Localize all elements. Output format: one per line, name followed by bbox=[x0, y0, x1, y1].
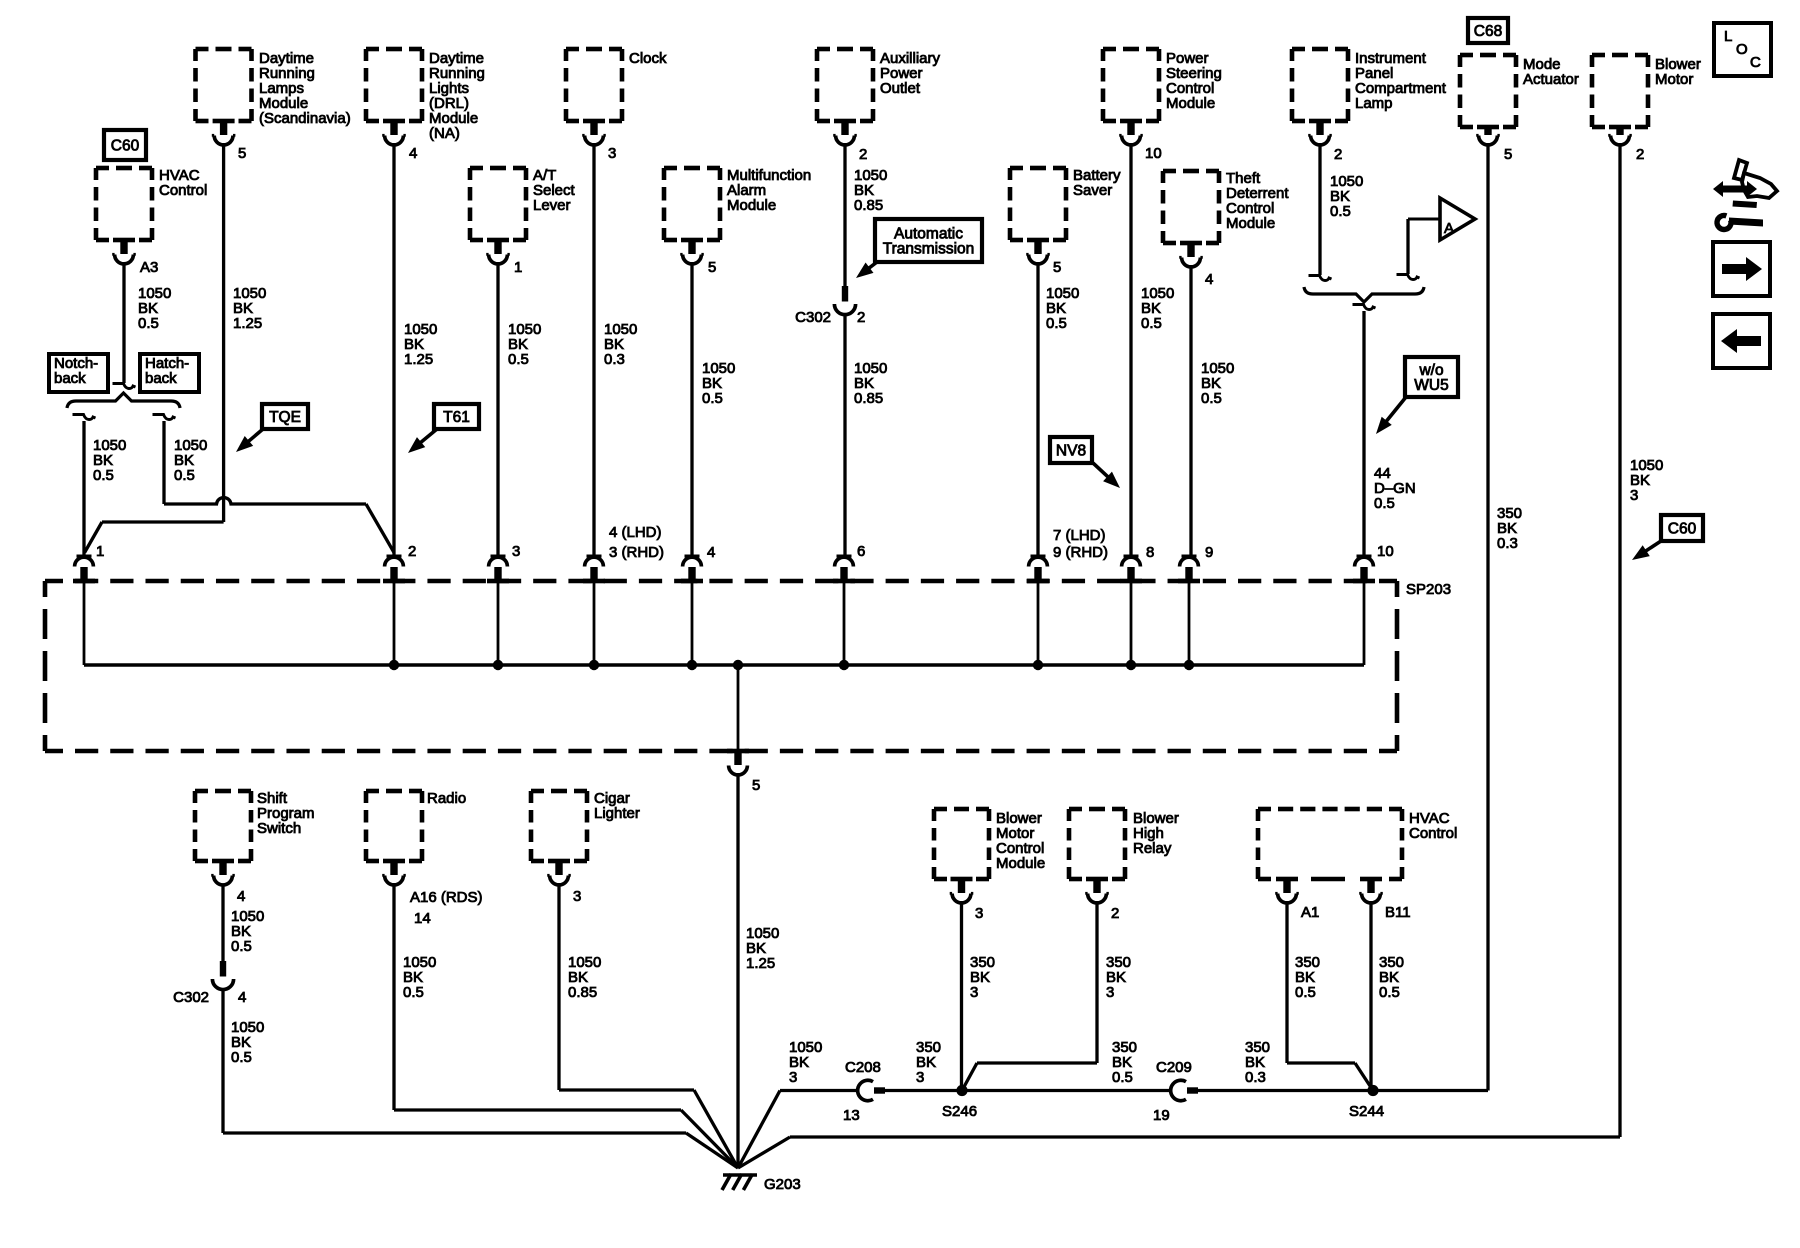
svg-text:13: 13 bbox=[843, 1107, 860, 1124]
svg-text:8: 8 bbox=[1146, 544, 1154, 561]
wire label 1050 BK 0.5 bbox=[403, 954, 436, 1001]
svg-text:L: L bbox=[1724, 28, 1732, 45]
callout C60 above HVAC Control bbox=[104, 130, 146, 160]
C209 label bbox=[1156, 1059, 1192, 1076]
connector box: Blower High Relay bbox=[1069, 809, 1179, 903]
svg-text:5: 5 bbox=[708, 259, 716, 276]
wire inside SP203 from pin 10 to bus bbox=[1363, 583, 1366, 665]
svg-text:2: 2 bbox=[857, 309, 865, 326]
SP203 top pin connector 10 bbox=[1353, 555, 1375, 584]
wire inside SP203 from pin 3 to bus bbox=[497, 583, 500, 665]
wire inside SP203 from pin 6 to bus bbox=[843, 583, 846, 665]
SP203 internal bus wire bbox=[84, 663, 1364, 667]
svg-text:(Scandinavia): (Scandinavia) bbox=[259, 110, 351, 127]
wire: blower motor pin 2 down right edge to ground G203 bbox=[738, 146, 1620, 1168]
svg-text:0.5: 0.5 bbox=[1379, 984, 1400, 1001]
wire label 1050 BK 0.5 bbox=[1141, 285, 1174, 332]
svg-text:0.5: 0.5 bbox=[1330, 203, 1351, 220]
pin 2 label (Blower High Relay) bbox=[1111, 905, 1119, 922]
svg-text:0.5: 0.5 bbox=[508, 351, 529, 368]
svg-text:Module: Module bbox=[727, 197, 776, 214]
wire: Scandinavia lamps wire bend joining SP203 pin 1 bbox=[85, 522, 224, 553]
wire label 1050 BK 3 bbox=[789, 1039, 822, 1086]
wire label 1050 BK 3 bbox=[1630, 457, 1663, 504]
svg-text:0.3: 0.3 bbox=[1245, 1069, 1266, 1086]
C208 label bbox=[845, 1059, 881, 1076]
svg-text:T61: T61 bbox=[443, 409, 470, 426]
C302 label bbox=[173, 989, 209, 1006]
svg-text:3 (RHD): 3 (RHD) bbox=[609, 544, 664, 561]
S244 label bbox=[1349, 1103, 1384, 1120]
wire: hatchback option wire down and right to SP203 pin 2 bbox=[153, 415, 395, 553]
pin 2 label (Auxilliary Power Outlet) bbox=[859, 146, 867, 163]
svg-text:0.85: 0.85 bbox=[854, 197, 883, 214]
wire: SP203 pin 5 down to ground G203 bbox=[736, 775, 739, 1168]
svg-text:back: back bbox=[145, 370, 177, 387]
svg-text:4 (LHD): 4 (LHD) bbox=[609, 524, 662, 541]
svg-text:3: 3 bbox=[970, 984, 978, 1001]
svg-text:3: 3 bbox=[789, 1069, 797, 1086]
inline connector C302 on shift wire bbox=[212, 961, 233, 990]
svg-text:0.85: 0.85 bbox=[854, 390, 883, 407]
wire inside SP203 from bus down to bottom pin 5 bbox=[737, 665, 740, 751]
svg-text:2: 2 bbox=[1636, 146, 1644, 163]
svg-text:TQE: TQE bbox=[269, 409, 301, 426]
connector box: Cigar Lighter bbox=[531, 790, 640, 885]
bus junction bbox=[1184, 660, 1194, 670]
pin 19 label at C209 bbox=[1153, 1107, 1170, 1124]
svg-text:1.25: 1.25 bbox=[404, 351, 433, 368]
wire: theft deterrent module down to SP203 pin 9 bbox=[1189, 267, 1192, 555]
pin 2 label (Instrument Panel Compartment Lamp) bbox=[1334, 146, 1342, 163]
SP203 top pin connector 7 bbox=[1027, 555, 1049, 584]
svg-text:C60: C60 bbox=[111, 138, 140, 155]
wire: Clock pin 3 down to SP203 bbox=[592, 145, 595, 555]
svg-text:B11: B11 bbox=[1385, 904, 1411, 921]
wire: A/T select lever down to SP203 pin 3 bbox=[496, 264, 499, 555]
connector box: HVAC Control (lower) bbox=[1258, 809, 1457, 879]
wire: radio to ground G203 bbox=[394, 885, 738, 1168]
wire: HVAC B11 down to S244 bbox=[1369, 903, 1372, 1091]
svg-text:14: 14 bbox=[414, 910, 431, 927]
inline connector C209 bbox=[1171, 1080, 1198, 1100]
svg-text:Lighter: Lighter bbox=[594, 805, 640, 822]
SP203 top pin connector 4 bbox=[583, 555, 605, 584]
connector box: Shift Program Switch bbox=[195, 790, 315, 885]
wire: multifunction alarm module down to SP203 pin 4 bbox=[690, 264, 693, 555]
callout T61 with arrow bbox=[408, 404, 479, 453]
svg-text:9: 9 bbox=[1205, 544, 1213, 561]
svg-text:1: 1 bbox=[514, 259, 522, 276]
icon: harness direction (double arrow, outline arrow, wrench) bbox=[1713, 160, 1777, 229]
pin 5 label (SP203 output) bbox=[752, 777, 760, 794]
wire: HVAC A1 down to S244 bbox=[1287, 903, 1373, 1091]
connector box: Instrument Panel Compartment Lamp bbox=[1292, 49, 1447, 145]
svg-text:6: 6 bbox=[857, 543, 865, 560]
wire: merged wire down to SP203 pin 10 bbox=[1353, 305, 1376, 555]
wire label 44 D-GN 0.5 bbox=[1374, 465, 1416, 512]
bus junction bbox=[1033, 660, 1043, 670]
svg-text:0.5: 0.5 bbox=[702, 390, 723, 407]
splice pack SP203 dashed box bbox=[45, 581, 1397, 751]
svg-text:5: 5 bbox=[238, 145, 246, 162]
svg-text:C302: C302 bbox=[173, 989, 209, 1006]
svg-text:1: 1 bbox=[96, 543, 104, 560]
wire: shift program switch to C302 bbox=[221, 885, 224, 962]
wire inside SP203 from pin 8 to bus bbox=[1130, 583, 1133, 665]
svg-text:0.5: 0.5 bbox=[93, 467, 114, 484]
pin 3 label (Blower Motor Control Module) bbox=[975, 905, 983, 922]
svg-text:4: 4 bbox=[238, 989, 246, 1006]
options brace joining notchback/hatchback wires bbox=[67, 393, 180, 408]
wire inside SP203 from pin 7 to bus bbox=[1037, 583, 1040, 665]
pin 3 label (Clock) bbox=[608, 145, 616, 162]
SP203 top pin connector 5 bbox=[681, 555, 703, 584]
ground symbol G203 bbox=[722, 1174, 757, 1190]
wire inside SP203 from pin 9 to bus bbox=[1188, 583, 1191, 665]
wire: HVAC control pin A3 down to options brace bbox=[113, 264, 136, 389]
svg-text:Clock: Clock bbox=[629, 50, 667, 67]
wire label 350 BK 3 bbox=[1106, 954, 1131, 1001]
SP203 top pin connector 1 bbox=[73, 555, 95, 584]
SP203 top pin connector 2 bbox=[383, 555, 405, 584]
wire: DRL lamps module pin 5 down to SP203 area bbox=[222, 145, 225, 522]
svg-text:C302: C302 bbox=[795, 309, 831, 326]
pin 5 label (Battery Saver) bbox=[1053, 259, 1061, 276]
pin 13 label at C208 bbox=[843, 1107, 860, 1124]
svg-text:0.5: 0.5 bbox=[138, 315, 159, 332]
wire label 1050 BK 1.25 bbox=[233, 285, 266, 332]
G203 label bbox=[764, 1176, 801, 1193]
svg-text:A1: A1 bbox=[1301, 904, 1319, 921]
pin 4 label (Shift Program Switch) bbox=[237, 888, 245, 905]
svg-text:5: 5 bbox=[1053, 259, 1061, 276]
svg-text:4: 4 bbox=[1205, 271, 1213, 288]
svg-text:5: 5 bbox=[752, 777, 760, 794]
pin 10 label (Power Steering Control Module) bbox=[1145, 145, 1162, 162]
inline connector C208 bbox=[858, 1080, 885, 1100]
wire inside SP203 from pin 2 to bus bbox=[393, 583, 396, 665]
svg-text:2: 2 bbox=[1334, 146, 1342, 163]
svg-text:Control: Control bbox=[159, 182, 207, 199]
svg-text:0.5: 0.5 bbox=[1112, 1069, 1133, 1086]
callout NV8 with arrow bbox=[1050, 437, 1120, 488]
svg-text:0.3: 0.3 bbox=[604, 351, 625, 368]
pin 5 label (Mode Actuator) bbox=[1504, 146, 1512, 163]
svg-text:Lamp: Lamp bbox=[1355, 95, 1393, 112]
SP203 top pin connector 9 bbox=[1178, 555, 1200, 584]
pin 2 label at C302 bbox=[857, 309, 865, 326]
callout C68 above Mode Actuator bbox=[1468, 18, 1508, 43]
wire label 1050 BK 0.5 bbox=[1201, 360, 1234, 407]
wire: DRL(NA) module pin 4 down to SP203 pin 2 bbox=[392, 145, 395, 555]
SP203 top pin connector 6 bbox=[833, 555, 855, 584]
svg-text:Saver: Saver bbox=[1073, 182, 1112, 199]
wire label 1050 BK 1.25 bbox=[404, 321, 437, 368]
bus junction bbox=[1126, 660, 1136, 670]
svg-text:NV8: NV8 bbox=[1056, 443, 1086, 460]
svg-text:1.25: 1.25 bbox=[746, 955, 775, 972]
svg-text:Transmission: Transmission bbox=[883, 241, 975, 258]
HVAC control pin B11 connector bbox=[1359, 877, 1383, 903]
svg-text:4: 4 bbox=[237, 888, 245, 905]
connector box: Multifunction Alarm Module bbox=[664, 167, 811, 264]
svg-text:Module: Module bbox=[1166, 95, 1215, 112]
svg-text:1.25: 1.25 bbox=[233, 315, 262, 332]
wire: mode actuator pin 5 down right side to S244 bbox=[1375, 146, 1488, 1091]
connector box: Mode Actuator bbox=[1460, 55, 1579, 145]
wire label 1050 BK 0.85 bbox=[568, 954, 601, 1001]
bus junction bbox=[839, 660, 849, 670]
svg-text:C60: C60 bbox=[1668, 521, 1697, 538]
HVAC control pin A1 connector bbox=[1275, 877, 1299, 903]
bus junction bbox=[493, 660, 503, 670]
SP203 bottom pin 5 connector bbox=[727, 749, 749, 775]
connector box: Clock bbox=[566, 49, 667, 145]
wire: lamp pin 2 down to merge brace bbox=[1309, 145, 1332, 281]
wire label 350 BK 3 bbox=[970, 954, 995, 1001]
connector box: Theft Deterrent Control Module bbox=[1163, 170, 1289, 267]
wire label 1050 BK 0.5 bbox=[508, 321, 541, 368]
svg-text:G203: G203 bbox=[764, 1176, 801, 1193]
connector box: Blower Motor Control Module bbox=[934, 809, 1045, 903]
connector box: HVAC Control (upper) bbox=[96, 167, 207, 264]
SP203 pin number labels bbox=[96, 524, 1394, 561]
svg-text:7 (LHD): 7 (LHD) bbox=[1053, 527, 1106, 544]
wire inside SP203 from pin 1 to bus bbox=[83, 583, 86, 665]
wire label 1050 BK 0.5 bbox=[231, 1019, 264, 1066]
svg-text:3: 3 bbox=[916, 1069, 924, 1086]
wire label 1050 BK 0.3 bbox=[604, 321, 637, 368]
wire: blower high relay pin 2 to S246 bbox=[962, 903, 1097, 1091]
svg-text:Outlet: Outlet bbox=[880, 80, 921, 97]
pin 4 label (DRL module) bbox=[409, 145, 417, 162]
wire label 1050 BK 0.85 bbox=[854, 167, 887, 214]
svg-text:0.3: 0.3 bbox=[1497, 535, 1518, 552]
svg-text:A3: A3 bbox=[140, 259, 158, 276]
wire label 1050 BK 0.5 bbox=[231, 908, 264, 955]
svg-text:0.5: 0.5 bbox=[231, 1049, 252, 1066]
wire label 350 BK 0.5 (A1) bbox=[1295, 954, 1320, 1001]
svg-text:S246: S246 bbox=[942, 1103, 977, 1120]
svg-text:0.85: 0.85 bbox=[568, 984, 597, 1001]
wire: battery saver down to SP203 pin 7/9 bbox=[1036, 264, 1039, 555]
icon: back arrow box bbox=[1713, 314, 1770, 368]
wire label 1050 BK 0.5 (hatchback) bbox=[174, 437, 207, 484]
svg-text:A: A bbox=[1444, 220, 1454, 237]
connector box: Power Steering Control Module bbox=[1103, 49, 1222, 145]
off-page triangle A bbox=[1440, 198, 1475, 240]
svg-text:3: 3 bbox=[512, 543, 520, 560]
svg-text:3: 3 bbox=[1106, 984, 1114, 1001]
pin 2 label (Blower Motor) bbox=[1636, 146, 1644, 163]
wire: S246 to C209 bbox=[962, 1089, 1170, 1092]
svg-text:S244: S244 bbox=[1349, 1103, 1384, 1120]
legend box L O C bbox=[1714, 23, 1771, 76]
wire label 1050 BK 1.25 bbox=[746, 925, 779, 972]
wire inside SP203 from pin 5 to bus bbox=[691, 583, 694, 665]
svg-text:5: 5 bbox=[1504, 146, 1512, 163]
merge brace (lamp + A) to single wire bbox=[1304, 287, 1424, 302]
wire label 350 BK 3 bbox=[916, 1039, 941, 1086]
bus junction bbox=[589, 660, 599, 670]
connector box: Battery Saver bbox=[1010, 167, 1121, 264]
SP203 top pin connector 8 bbox=[1120, 555, 1142, 584]
svg-text:C209: C209 bbox=[1156, 1059, 1192, 1076]
connector box: Auxilliary Power Outlet bbox=[817, 49, 941, 145]
pin 3 label (Cigar Lighter) bbox=[573, 888, 581, 905]
svg-text:0.5: 0.5 bbox=[1046, 315, 1067, 332]
connector box: Daytime Running Lamps Module (Scandinavia) bbox=[196, 49, 351, 145]
wire label 350 BK 0.3 bbox=[1245, 1039, 1270, 1086]
SP203 top pin connector 3 bbox=[487, 555, 509, 584]
svg-text:3: 3 bbox=[1630, 487, 1638, 504]
wire: C209 to splice S244 bbox=[1198, 1089, 1373, 1092]
svg-text:10: 10 bbox=[1377, 543, 1394, 560]
wire label A3 1050 BK 0.5 bbox=[138, 285, 171, 332]
svg-text:Switch: Switch bbox=[257, 820, 301, 837]
callout TQE with arrow bbox=[236, 404, 308, 452]
svg-text:Control: Control bbox=[1409, 825, 1457, 842]
svg-text:Motor: Motor bbox=[1655, 71, 1693, 88]
splice S246 bbox=[956, 1085, 967, 1096]
svg-text:Module: Module bbox=[996, 855, 1045, 872]
svg-text:3: 3 bbox=[975, 905, 983, 922]
svg-text:Actuator: Actuator bbox=[1523, 71, 1579, 88]
wire from triangle A down to merge brace bbox=[1397, 219, 1442, 280]
icon: forward arrow box bbox=[1713, 242, 1770, 296]
option box: Hatch-back bbox=[140, 354, 199, 392]
wire label 1050 BK 0.5 (notchback) bbox=[93, 437, 126, 484]
connector box: Blower Motor bbox=[1592, 55, 1701, 145]
svg-text:10: 10 bbox=[1145, 145, 1162, 162]
svg-text:4: 4 bbox=[409, 145, 417, 162]
pin 5 label (Daytime Running Lamps Module) bbox=[238, 145, 246, 162]
svg-text:0.5: 0.5 bbox=[1295, 984, 1316, 1001]
bus junction bbox=[733, 660, 743, 670]
pin B11 label bbox=[1385, 904, 1411, 921]
pin 1 label (A/T Select Lever) bbox=[514, 259, 522, 276]
svg-text:0.5: 0.5 bbox=[1141, 315, 1162, 332]
svg-text:WU5: WU5 bbox=[1414, 377, 1448, 394]
option box: Notch-back bbox=[49, 354, 108, 392]
connector box: A/T Select Lever bbox=[470, 167, 576, 264]
svg-text:SP203: SP203 bbox=[1406, 581, 1451, 598]
wire label 350 BK 0.5 bbox=[1112, 1039, 1137, 1086]
wire label 1050 BK 0.5 bbox=[702, 360, 735, 407]
svg-text:0.5: 0.5 bbox=[174, 467, 195, 484]
svg-text:0.5: 0.5 bbox=[1374, 495, 1395, 512]
svg-text:back: back bbox=[54, 370, 86, 387]
svg-text:0.5: 0.5 bbox=[1201, 390, 1222, 407]
bus junction bbox=[687, 660, 697, 670]
inline connector C302 on aux power wire bbox=[834, 286, 855, 315]
svg-text:Lever: Lever bbox=[533, 197, 571, 214]
svg-text:3: 3 bbox=[608, 145, 616, 162]
svg-text:Relay: Relay bbox=[1133, 840, 1172, 857]
bus junction bbox=[389, 660, 399, 670]
pin 5 label (Multifunction Alarm Module) bbox=[708, 259, 716, 276]
SP203 label bbox=[1406, 581, 1451, 598]
svg-text:2: 2 bbox=[408, 543, 416, 560]
pin 4 label (Theft Deterrent Control Module) bbox=[1205, 271, 1213, 288]
pin 4 label at C302 bbox=[238, 989, 246, 1006]
svg-text:4: 4 bbox=[707, 544, 715, 561]
svg-text:19: 19 bbox=[1153, 1107, 1170, 1124]
C302 label bbox=[795, 309, 831, 326]
svg-text:Module: Module bbox=[1226, 215, 1275, 232]
callout w/o WU5 with arrow bbox=[1376, 357, 1458, 434]
connector box: Radio bbox=[366, 790, 466, 885]
svg-text:3: 3 bbox=[573, 888, 581, 905]
svg-text:C208: C208 bbox=[845, 1059, 881, 1076]
wire label 350 BK 0.5 (B11) bbox=[1379, 954, 1404, 1001]
pin A1 label bbox=[1301, 904, 1319, 921]
wire inside SP203 from pin 4 to bus bbox=[593, 583, 596, 665]
S246 label bbox=[942, 1103, 977, 1120]
splice S244 bbox=[1367, 1085, 1378, 1096]
svg-text:C: C bbox=[1750, 54, 1761, 71]
svg-text:0.5: 0.5 bbox=[403, 984, 424, 1001]
wire: aux power outlet to C302 bbox=[843, 145, 846, 287]
svg-text:2: 2 bbox=[1111, 905, 1119, 922]
pin A16 (RDS) 14 label bbox=[410, 889, 483, 927]
svg-text:9 (RHD): 9 (RHD) bbox=[1053, 544, 1108, 561]
svg-text:C68: C68 bbox=[1474, 23, 1502, 40]
wire: C208 to splice S246 bbox=[885, 1089, 962, 1092]
svg-text:A16 (RDS): A16 (RDS) bbox=[410, 889, 483, 906]
svg-text:(NA): (NA) bbox=[429, 125, 460, 142]
wire: blower motor control module pin 3 down to S246 bbox=[960, 903, 963, 1091]
wire label 350 BK 0.3 bbox=[1497, 505, 1522, 552]
wire label 1050 BK 0.5 bbox=[1330, 173, 1363, 220]
callout: Automatic Transmission with arrow to C302 bbox=[856, 219, 982, 278]
wire: ground bus from G203 up to C208 bbox=[738, 1091, 857, 1169]
svg-text:2: 2 bbox=[859, 146, 867, 163]
wire: C302 down/right to ground G203 bbox=[223, 990, 738, 1168]
pin A3 label (HVAC Control) bbox=[140, 259, 158, 276]
wire: power steering module down to SP203 pin 8 bbox=[1129, 145, 1132, 555]
svg-text:O: O bbox=[1736, 41, 1748, 58]
wire label 1050 BK 0.5 bbox=[1046, 285, 1079, 332]
wire label 1050 BK 0.85 bbox=[854, 360, 887, 407]
connector box: Daytime Running Lights (DRL) Module (NA) bbox=[366, 49, 485, 145]
svg-text:0.5: 0.5 bbox=[231, 938, 252, 955]
wire: notchback option wire down to SP203 pin 1 bbox=[73, 415, 96, 555]
svg-text:Radio: Radio bbox=[427, 790, 466, 807]
callout C60 with arrow to blower motor wire bbox=[1632, 515, 1703, 560]
wire: cigar lighter to ground G203 bbox=[559, 885, 738, 1168]
wire: C302 down to SP203 pin 6 bbox=[843, 315, 846, 555]
